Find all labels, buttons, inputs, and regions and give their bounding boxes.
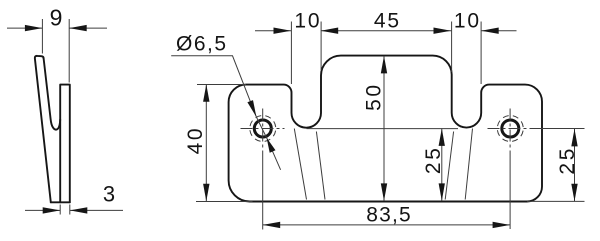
tongue root edge inner left	[316, 132, 325, 200]
top dimension extension line 1	[290, 22, 292, 85]
hole right horizontal centerline extending to 25 dimension	[488, 128, 541, 130]
top dimension extension line 3	[451, 22, 453, 73]
tongue root edge lower right	[465, 129, 472, 200]
dimension 40 extension bottom	[196, 201, 253, 203]
front view plate outline	[229, 56, 542, 202]
dimension 83,5 line	[263, 224, 510, 226]
dimension 25 right arrow up	[571, 129, 577, 147]
svg-text:Ø6,5: Ø6,5	[176, 33, 228, 56]
dimension 25 middle arrow down	[439, 183, 445, 201]
top dimension extension line 4	[480, 22, 482, 85]
hole left vertical centerline extending to 83,5 dimension	[262, 109, 264, 156]
arrow 45 right	[434, 28, 452, 34]
hole left horizontal centerline	[241, 128, 285, 130]
top dimension line right tail	[481, 30, 516, 32]
dimension 50 arrow up	[381, 56, 387, 74]
dimension 83,5 arrow right	[493, 222, 511, 228]
dimension 40 line	[205, 84, 207, 201]
dimension 3 line right tail	[70, 209, 123, 211]
svg-text:83,5: 83,5	[366, 204, 412, 227]
side view spring tongue outer edge	[35, 56, 51, 202]
arrow 10 right outer	[481, 28, 499, 34]
side view bottom edge	[51, 201, 70, 203]
dimension 3 extension line right	[69, 205, 71, 215]
leader Ø6,5 line	[171, 56, 280, 170]
dimension 25 middle line	[441, 128, 443, 201]
dimension 9 extension line right	[68, 19, 70, 83]
svg-text:10: 10	[294, 10, 321, 33]
top dimension extension line 2	[320, 22, 322, 71]
hole left Ø6,5	[254, 120, 271, 137]
dimension 3 arrow left	[43, 207, 61, 213]
bend line across tongue	[307, 128, 459, 130]
dimension 9 line left tail	[7, 27, 42, 29]
arrow 45 left	[321, 28, 339, 34]
svg-text:25: 25	[422, 146, 445, 175]
dimension 9 line right tail	[69, 27, 107, 29]
dimension 9 arrow right	[69, 25, 87, 31]
leader Ø6,5 arrowhead upper	[247, 100, 256, 117]
svg-text:45: 45	[374, 10, 401, 33]
svg-text:3: 3	[103, 182, 115, 207]
dimension 83,5 arrow left	[263, 222, 281, 228]
dimension 25 right arrow down	[571, 184, 577, 202]
svg-text:9: 9	[50, 4, 63, 30]
tongue root edge lower left	[294, 129, 306, 200]
dimension 3 line left tail	[25, 209, 60, 211]
hole right countersink dashed circle	[497, 116, 523, 142]
dimension 25 middle arrow up	[439, 128, 445, 146]
svg-text:50: 50	[363, 82, 386, 111]
top dimension line left tail	[255, 30, 291, 32]
dimension 50 line	[383, 56, 385, 201]
top dimension line middle 45	[321, 30, 452, 32]
svg-text:10: 10	[454, 10, 481, 33]
hole right Ø6,5	[502, 120, 519, 137]
dimension 9 extension line left	[41, 19, 43, 54]
side view tongue inner edge with bend curve	[44, 58, 61, 129]
hole right vertical centerline extending to 83,5 dimension	[509, 109, 511, 156]
dimension 40 arrow down	[203, 184, 209, 202]
tongue root edge inner right	[445, 132, 453, 200]
dimension 9 arrow left	[25, 25, 43, 31]
dimension 40 extension top	[197, 84, 246, 86]
svg-text:40: 40	[184, 126, 207, 155]
dimension 40 arrow up	[203, 84, 209, 102]
side view plate (edge-on rectangle)	[60, 85, 70, 203]
arrow 10 left outer	[274, 28, 292, 34]
dimension 50 arrow down	[381, 183, 387, 201]
dimension 25 right line	[574, 129, 576, 201]
dimension 3 extension line left	[59, 205, 61, 215]
svg-text:25: 25	[556, 146, 579, 175]
leader Ø6,5 arrowhead lower	[267, 138, 276, 153]
dimension 3 arrow right	[70, 207, 88, 213]
hole left countersink dashed circle	[250, 116, 276, 142]
dimension 25 right bottom extension	[527, 200, 585, 202]
